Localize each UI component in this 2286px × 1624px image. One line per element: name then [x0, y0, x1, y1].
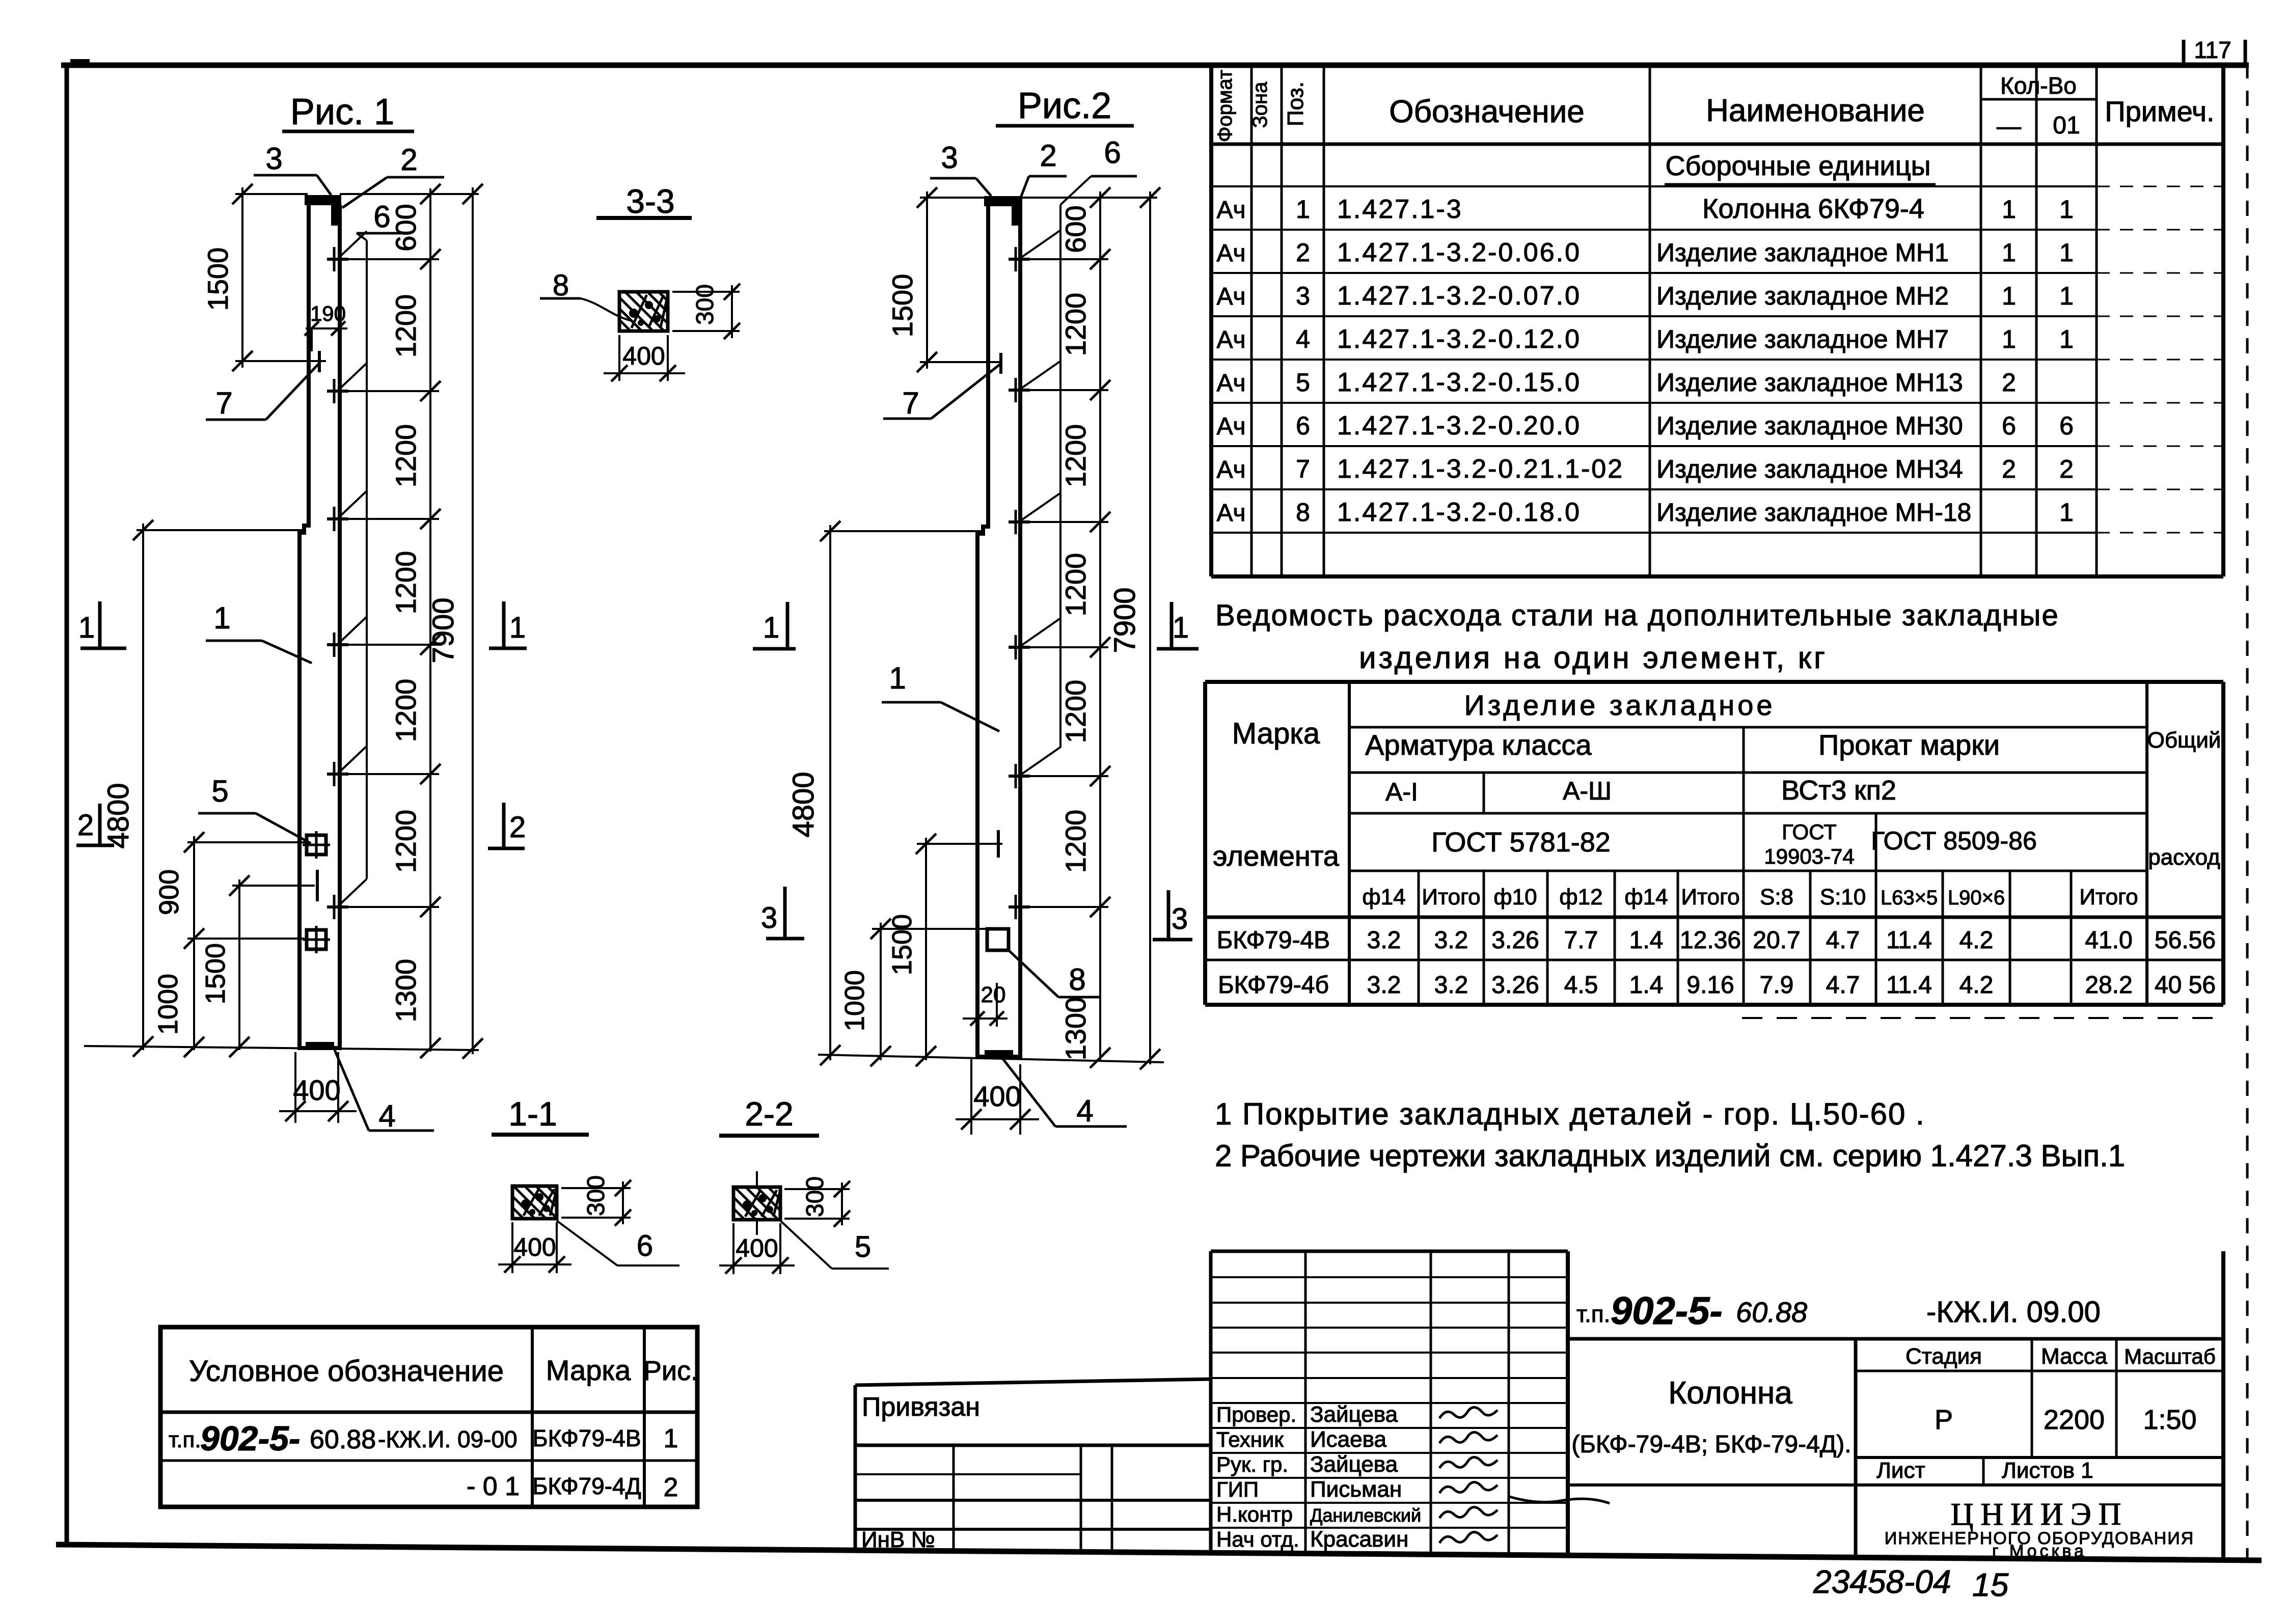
svg-text:Наименование: Наименование: [1706, 93, 1925, 128]
title block drawing name: [1571, 1375, 1851, 1458]
section 3-3 label 8 leader: [540, 269, 632, 321]
svg-text:3.2: 3.2: [1434, 972, 1468, 999]
svg-text:Ач: Ач: [1216, 197, 1245, 224]
section 3-3 title: [596, 182, 692, 220]
svg-text:3-3: 3-3: [626, 182, 674, 220]
parts table row 3: [1216, 281, 2073, 311]
steel table grid: [1205, 682, 2223, 1018]
fig2 top plate MH2 (item 3): [984, 196, 1022, 206]
fig2 label 4 leader: [1002, 1058, 1127, 1128]
svg-text:3: 3: [1296, 282, 1310, 310]
svg-text:1: 1: [889, 661, 906, 695]
parts list table grid: [1211, 64, 2223, 576]
fig1 dim 190: [305, 301, 347, 351]
svg-text:ф14: ф14: [1624, 885, 1668, 910]
svg-text:Техник: Техник: [1216, 1427, 1284, 1451]
section 1-1 dim 300: [561, 1175, 631, 1226]
svg-text:4.7: 4.7: [1826, 927, 1860, 954]
svg-text:1: 1: [2002, 325, 2016, 353]
svg-text:1300: 1300: [390, 959, 422, 1023]
svg-text:Изделие закладное МН30: Изделие закладное МН30: [1656, 411, 1963, 440]
fig1 section mark 1 right: [489, 601, 527, 648]
svg-text:Рис.: Рис.: [643, 1356, 698, 1386]
steel table data row БКФ79-4Д: [1218, 972, 2216, 999]
legend table grid: [160, 1327, 697, 1507]
svg-text:2: 2: [1296, 238, 1310, 267]
section 1-1 label 6 leader: [557, 1221, 679, 1265]
fig1 section mark 2 left: [76, 804, 114, 845]
fig1 label 5 leader: [198, 774, 311, 843]
svg-text:117: 117: [2194, 37, 2231, 63]
svg-text:Ач: Ач: [1216, 283, 1245, 310]
parts table row 6: [1216, 411, 2073, 441]
svg-text:01: 01: [2053, 112, 2080, 139]
svg-text:S:8: S:8: [1760, 885, 1793, 910]
fig2 dim 1500 bottom: [887, 834, 936, 1066]
svg-text:расход: расход: [2148, 845, 2220, 870]
title block signature table grid: [1211, 1251, 1568, 1555]
svg-text:ф10: ф10: [1493, 885, 1537, 910]
svg-text:L63×5: L63×5: [1881, 887, 1938, 909]
svg-text:Ач: Ач: [1216, 413, 1245, 440]
svg-text:60.88: 60.88: [310, 1425, 376, 1454]
svg-text:Кол-Во: Кол-Во: [2000, 72, 2077, 99]
fig2 dim 1500 top left: [886, 187, 937, 372]
svg-text:Ач: Ач: [1216, 370, 1245, 397]
svg-text:Листов 1: Листов 1: [2002, 1458, 2093, 1483]
svg-text:4: 4: [378, 1099, 395, 1133]
svg-text:6: 6: [1104, 135, 1121, 170]
signature squiggles: [1439, 1407, 1610, 1543]
svg-text:56.56: 56.56: [2155, 927, 2216, 954]
fig1 label 2 leader: [342, 143, 444, 208]
svg-text:1: 1: [2002, 238, 2016, 267]
fig1 label 4 leader: [335, 1050, 434, 1133]
svg-text:60.88: 60.88: [1736, 1296, 1807, 1328]
svg-text:изделия на один элемент, кг: изделия на один элемент, кг: [1359, 641, 1828, 675]
fig2 embed MH34 mark (item 7): [999, 353, 1002, 374]
section 1-1 title: [492, 1095, 589, 1135]
parts table row 7: [1216, 454, 2073, 484]
svg-text:1 Покрытие закладных деталей -: 1 Покрытие закладных деталей - гор. Ц.50…: [1215, 1097, 1925, 1131]
fig2 column 1 outline: [977, 206, 1020, 1057]
svg-text:41.0: 41.0: [2085, 927, 2132, 954]
svg-text:(БКФ-79-4В; БКФ-79-4Д).: (БКФ-79-4В; БКФ-79-4Д).: [1571, 1431, 1851, 1458]
section 3-3 dim 300: [672, 284, 740, 339]
svg-text:БКФ79-4В: БКФ79-4В: [532, 1425, 641, 1451]
svg-text:ВСт3 кп2: ВСт3 кп2: [1781, 775, 1896, 806]
svg-text:4.2: 4.2: [1960, 972, 1994, 999]
svg-text:L90×6: L90×6: [1948, 887, 2005, 909]
svg-text:Рук. гр.: Рук. гр.: [1216, 1452, 1288, 1476]
fig2 label 7 leader: [883, 364, 1001, 420]
svg-text:1.427.1-3.2-0.20.0: 1.427.1-3.2-0.20.0: [1337, 411, 1581, 441]
fig2 title Рис.2: [996, 86, 1134, 126]
svg-text:Колонна 6КФ79-4: Колонна 6КФ79-4: [1702, 194, 1924, 224]
svg-text:7.9: 7.9: [1760, 972, 1794, 999]
svg-text:—: —: [1997, 113, 2021, 140]
svg-text:6: 6: [2059, 411, 2074, 440]
title block organization: [1885, 1497, 2194, 1561]
svg-text:1200: 1200: [390, 810, 422, 873]
svg-text:3: 3: [265, 142, 282, 176]
svg-text:Изделие закладное МН34: Изделие закладное МН34: [1656, 455, 1963, 483]
svg-text:400: 400: [736, 1234, 778, 1262]
svg-text:3: 3: [941, 141, 958, 175]
svg-text:1: 1: [2059, 325, 2074, 353]
svg-text:600: 600: [390, 204, 422, 251]
svg-text:20.7: 20.7: [1753, 927, 1800, 954]
svg-text:8: 8: [553, 269, 569, 302]
svg-text:Итого: Итого: [2079, 885, 2138, 910]
svg-text:Данилевский: Данилевский: [1310, 1505, 1421, 1526]
svg-text:6: 6: [1296, 411, 1310, 440]
svg-text:1200: 1200: [390, 294, 422, 358]
svg-text:Ведомость расхода стали на доп: Ведомость расхода стали на дополнительны…: [1215, 599, 2059, 632]
svg-text:7900: 7900: [1108, 587, 1141, 653]
svg-text:1.427.1-3.2-0.12.0: 1.427.1-3.2-0.12.0: [1337, 324, 1581, 354]
svg-text:1.427.1-3.2-0.06.0: 1.427.1-3.2-0.06.0: [1337, 238, 1581, 267]
svg-text:1.427.1-3.2-0.21.1-02: 1.427.1-3.2-0.21.1-02: [1337, 454, 1624, 484]
svg-text:Зайцева: Зайцева: [1310, 1452, 1398, 1477]
svg-text:Сборочные единицы: Сборочные единицы: [1666, 151, 1931, 181]
svg-text:Н.контр: Н.контр: [1216, 1502, 1293, 1526]
svg-text:2: 2: [1040, 139, 1056, 173]
fig1 embed MH34 mark (item 7): [318, 351, 321, 372]
svg-text:3.2: 3.2: [1367, 927, 1401, 954]
svg-text:-КЖ.И. 09.00: -КЖ.И. 09.00: [1926, 1296, 2101, 1329]
parts table row 2: [1216, 238, 2073, 267]
svg-text:т.п.: т.п.: [1576, 1301, 1610, 1327]
steel table data row БКФ79-4В: [1217, 927, 2216, 954]
svg-text:2-2: 2-2: [745, 1095, 793, 1133]
svg-text:Изделие закладное МН2: Изделие закладное МН2: [1656, 282, 1949, 310]
svg-text:190: 190: [310, 301, 346, 325]
fig1 dim 400 bottom: [279, 1052, 357, 1123]
svg-text:2 Рабочие чертежи закладных из: 2 Рабочие чертежи закладных изделий см. …: [1215, 1139, 2125, 1173]
svg-text:4800: 4800: [102, 783, 135, 848]
svg-text:400: 400: [293, 1074, 340, 1106]
svg-text:3.2: 3.2: [1367, 972, 1401, 999]
svg-text:1.427.1-3.2-0.18.0: 1.427.1-3.2-0.18.0: [1337, 498, 1581, 527]
svg-text:2: 2: [77, 809, 94, 842]
svg-text:400: 400: [513, 1233, 556, 1261]
fig1 dim 1500 bottom: [200, 875, 250, 1057]
fig2 section mark 3 left: [761, 887, 804, 939]
svg-text:2: 2: [664, 1473, 678, 1502]
svg-text:2: 2: [2002, 455, 2016, 483]
svg-text:А-Ш: А-Ш: [1563, 777, 1612, 805]
svg-text:6: 6: [373, 200, 390, 234]
svg-text:2: 2: [509, 811, 526, 844]
section 2-2 hatched cut: [733, 1171, 780, 1235]
svg-text:Условное обозначение: Условное обозначение: [189, 1355, 504, 1388]
svg-text:ГОСТ: ГОСТ: [1782, 820, 1837, 844]
svg-text:20: 20: [981, 982, 1006, 1007]
svg-text:900: 900: [154, 869, 184, 915]
fig1 label 6 leader: [337, 200, 403, 907]
svg-text:Формат: Формат: [1214, 70, 1236, 142]
svg-text:1200: 1200: [390, 679, 422, 742]
svg-text:12.36: 12.36: [1680, 927, 1741, 954]
svg-text:ф14: ф14: [1362, 885, 1405, 910]
svg-text:Стадия: Стадия: [1906, 1344, 1982, 1369]
svg-text:1.427.1-3.2-0.15.0: 1.427.1-3.2-0.15.0: [1337, 368, 1581, 397]
svg-text:5: 5: [1296, 368, 1310, 397]
svg-text:2: 2: [400, 143, 417, 177]
svg-text:1000: 1000: [153, 974, 183, 1035]
fig2 corner angle MH1 (item 2): [1012, 206, 1021, 226]
svg-text:ГИП: ГИП: [1216, 1477, 1259, 1501]
svg-text:902-5-: 902-5-: [200, 1419, 301, 1458]
section 2-2 dim 300: [784, 1176, 850, 1227]
svg-text:БКФ79-4В: БКФ79-4В: [1217, 927, 1330, 954]
section 2-2 label 5 leader: [780, 1221, 889, 1269]
svg-text:ф12: ф12: [1559, 885, 1602, 910]
svg-text:600: 600: [1059, 205, 1092, 253]
svg-text:Масштаб: Масштаб: [2124, 1344, 2216, 1368]
svg-text:Обозначение: Обозначение: [1389, 94, 1584, 129]
fig1 section mark 1 left: [78, 601, 126, 648]
svg-text:4: 4: [1076, 1094, 1093, 1128]
svg-text:Р: Р: [1935, 1405, 1953, 1435]
svg-text:8: 8: [1069, 962, 1085, 997]
svg-text:БКФ79-4б: БКФ79-4б: [1218, 972, 1329, 999]
svg-text:Исаева: Исаева: [1310, 1427, 1386, 1452]
svg-text:4.5: 4.5: [1564, 972, 1598, 999]
svg-text:Ач: Ач: [1216, 326, 1245, 353]
title block stage mass scale header: [1906, 1344, 2216, 1369]
svg-text:3.2: 3.2: [1434, 927, 1468, 954]
svg-text:11.4: 11.4: [1886, 927, 1932, 954]
svg-text:1500: 1500: [887, 914, 917, 975]
svg-text:15: 15: [1972, 1566, 2009, 1603]
svg-text:3: 3: [1172, 902, 1188, 935]
svg-text:Колонна: Колонна: [1668, 1375, 1792, 1411]
svg-text:3.26: 3.26: [1491, 972, 1539, 999]
svg-text:40 56: 40 56: [2155, 972, 2216, 999]
svg-text:1:50: 1:50: [2143, 1405, 2196, 1435]
fig1 label 7 leader: [206, 363, 319, 420]
fig2 bottom plate (item 4): [985, 1050, 1013, 1057]
section 1-1 dim 400: [498, 1222, 571, 1273]
svg-text:1300: 1300: [1059, 997, 1092, 1061]
svg-text:7.7: 7.7: [1564, 927, 1598, 954]
fig1 embed plate MH13 (item 5) lower: [303, 926, 330, 953]
svg-text:1: 1: [2059, 238, 2074, 267]
svg-text:Красавин: Красавин: [1310, 1527, 1408, 1552]
svg-text:-КЖ.И. 09-00: -КЖ.И. 09-00: [378, 1426, 518, 1452]
svg-text:1: 1: [763, 611, 779, 644]
svg-text:Ач: Ач: [1216, 240, 1245, 267]
svg-text:Нач отд.: Нач отд.: [1216, 1527, 1299, 1551]
svg-text:1500: 1500: [200, 943, 231, 1004]
fig2 MH30 plate marks (item 6): [1009, 247, 1030, 919]
svg-text:1000: 1000: [839, 970, 870, 1031]
title block left attach table: [855, 1379, 1212, 1552]
svg-text:1: 1: [78, 611, 95, 644]
svg-text:Изделие закладное МН7: Изделие закладное МН7: [1656, 325, 1949, 353]
fig1 dim 4800: [102, 520, 153, 1057]
fig1 label 1 leader: [206, 601, 312, 663]
svg-text:9.16: 9.16: [1686, 972, 1734, 999]
legend table header: [189, 1354, 698, 1388]
svg-text:1-1: 1-1: [508, 1095, 557, 1133]
svg-text:1200: 1200: [390, 551, 422, 615]
svg-text:1200: 1200: [1059, 680, 1092, 744]
fig2 section mark 1 right: [1157, 602, 1199, 649]
svg-text:1200: 1200: [1059, 293, 1092, 356]
svg-text:6: 6: [2002, 411, 2016, 440]
fig1 label 3 leader: [254, 142, 331, 195]
fig1 corner angle MH1 (item 2): [331, 205, 340, 226]
section 3-3 hatched cut: [619, 292, 668, 331]
svg-text:4800: 4800: [787, 772, 820, 837]
fig1 dim 7900 overall: [427, 184, 483, 1059]
svg-text:1.4: 1.4: [1629, 972, 1664, 999]
svg-text:Масса: Масса: [2041, 1344, 2108, 1369]
inventory number bottom: [1813, 1563, 2009, 1603]
svg-text:28.2: 28.2: [2085, 972, 2132, 999]
svg-text:1: 1: [213, 601, 230, 635]
svg-text:Привязан: Привязан: [862, 1392, 980, 1422]
title block doc number: [1576, 1289, 2101, 1333]
svg-text:1: 1: [1173, 611, 1189, 644]
svg-text:Примеч.: Примеч.: [2105, 95, 2214, 127]
section 1-1 hatched cut: [512, 1186, 557, 1219]
steel table subheader row: [1362, 885, 2138, 910]
svg-text:3: 3: [761, 901, 777, 934]
svg-text:1: 1: [509, 611, 526, 644]
svg-text:1: 1: [2059, 195, 2074, 224]
steel table header texts: [1213, 689, 2221, 872]
fig2 dim 400 bottom: [956, 1059, 1039, 1135]
svg-text:4: 4: [1296, 325, 1310, 353]
svg-text:3.26: 3.26: [1491, 927, 1539, 954]
svg-text:7: 7: [1296, 455, 1310, 483]
svg-text:1.4: 1.4: [1629, 927, 1664, 954]
fig2 section mark 1 left: [753, 602, 796, 649]
fig2 embed plate MH-18 (item 8): [987, 929, 1009, 950]
section 2-2 dim 400: [719, 1223, 795, 1274]
svg-text:2200: 2200: [2044, 1405, 2105, 1435]
svg-text:5: 5: [855, 1230, 871, 1263]
svg-text:1200: 1200: [390, 424, 422, 488]
parts table row 4: [1216, 324, 2073, 354]
svg-text:Изделие закладное МН-18: Изделие закладное МН-18: [1656, 498, 1971, 527]
fig1 section mark 2 right: [488, 803, 526, 848]
svg-text:1200: 1200: [1059, 553, 1092, 617]
svg-text:ИнВ №: ИнВ №: [861, 1527, 935, 1552]
svg-text:Арматура класса: Арматура класса: [1365, 729, 1592, 761]
fig1 top plate MH2 (item 3): [305, 195, 341, 205]
svg-text:Ач: Ач: [1216, 456, 1245, 483]
svg-text:8: 8: [1296, 498, 1310, 527]
svg-text:2: 2: [2002, 368, 2016, 397]
svg-text:19903-74: 19903-74: [1764, 844, 1855, 868]
section 2-2 title: [719, 1095, 819, 1136]
svg-text:Изделие закладное МН1: Изделие закладное МН1: [1656, 238, 1949, 267]
svg-text:Ач: Ач: [1216, 500, 1245, 527]
svg-text:4.7: 4.7: [1826, 972, 1860, 999]
title block stage mass scale values: [1935, 1405, 2197, 1435]
fig2 label 1 leader: [882, 661, 999, 731]
fig1 bottom plate (item 4): [306, 1042, 334, 1049]
fig1 MH30 plate marks (item 6): [327, 247, 348, 919]
svg-text:S:10: S:10: [1820, 885, 1866, 910]
svg-text:Марка: Марка: [1232, 717, 1320, 750]
fig2 dim 4800: [787, 521, 840, 1065]
svg-text:Прокат марки: Прокат марки: [1818, 729, 2000, 761]
svg-text:1: 1: [2002, 195, 2016, 224]
fig2 label 3 leader: [930, 141, 991, 196]
legend row 2: [467, 1472, 678, 1502]
svg-text:1500: 1500: [202, 247, 234, 311]
svg-text:1500: 1500: [886, 274, 918, 338]
svg-text:902-5-: 902-5-: [1611, 1289, 1723, 1333]
svg-text:Общий: Общий: [2147, 728, 2221, 753]
fig1 dim 900 and 1000: [153, 832, 204, 1057]
svg-text:Рис. 1: Рис. 1: [290, 92, 394, 132]
svg-text:Марка: Марка: [546, 1354, 631, 1386]
fig1 title Рис.1: [282, 92, 414, 132]
svg-text:Провер.: Провер.: [1216, 1402, 1296, 1426]
svg-text:7900: 7900: [427, 597, 460, 663]
fig2 section mark 3 right: [1153, 890, 1192, 940]
fig2 label 2 leader: [1019, 139, 1067, 203]
svg-text:1: 1: [2059, 282, 2074, 310]
fig2 dim 20: [963, 982, 1008, 1027]
fig2 mid mark dash: [997, 830, 1000, 858]
svg-text:Изделие закладное МН13: Изделие закладное МН13: [1656, 368, 1963, 397]
svg-text:7: 7: [215, 386, 232, 420]
svg-text:Изделие закладное: Изделие закладное: [1464, 689, 1776, 721]
svg-text:Зайцева: Зайцева: [1310, 1402, 1398, 1427]
svg-text:1.427.1-3: 1.427.1-3: [1337, 195, 1463, 224]
fig1 dim column segments 600/1200/1300: [390, 184, 441, 1058]
parts table row 1: [1216, 194, 2073, 224]
svg-text:ГОСТ 8509-86: ГОСТ 8509-86: [1871, 827, 2037, 855]
svg-text:ЦНИИЭП: ЦНИИЭП: [1951, 1497, 2129, 1532]
svg-text:1200: 1200: [1059, 810, 1092, 873]
svg-text:БКФ79-4Д: БКФ79-4Д: [532, 1473, 641, 1499]
svg-text:300: 300: [802, 1176, 829, 1217]
sheet number 117 top right: [2184, 37, 2245, 64]
title block signature rows: [1216, 1402, 1421, 1552]
svg-text:Рис.2: Рис.2: [1018, 86, 1111, 126]
svg-text:300: 300: [583, 1175, 610, 1216]
svg-text:5: 5: [211, 774, 228, 808]
svg-text:ГОСТ 5781-82: ГОСТ 5781-82: [1431, 827, 1611, 858]
steel consumption table title: [1215, 599, 2059, 675]
svg-text:11.4: 11.4: [1886, 972, 1932, 999]
svg-text:элемента: элемента: [1213, 840, 1340, 872]
parts table subheader row: [1665, 151, 1936, 184]
fig2 dim column segments 600/1200/1300: [1059, 187, 1110, 1068]
svg-text:400: 400: [622, 342, 665, 370]
svg-text:Письман: Письман: [1310, 1477, 1402, 1502]
fig2 dim 1000: [839, 919, 891, 1066]
svg-text:Поз.: Поз.: [1283, 81, 1308, 126]
svg-text:1.427.1-3.2-0.07.0: 1.427.1-3.2-0.07.0: [1337, 281, 1581, 311]
fig1 mid mark dash: [316, 870, 319, 901]
svg-text:1: 1: [2059, 498, 2074, 527]
fig2 dim 7900 overall: [1108, 187, 1160, 1069]
svg-text:4.2: 4.2: [1960, 927, 1994, 954]
svg-text:т.п.: т.п.: [169, 1427, 201, 1452]
svg-text:1: 1: [664, 1424, 678, 1453]
fig1 embed plate MH13 (item 5) upper: [303, 831, 330, 859]
